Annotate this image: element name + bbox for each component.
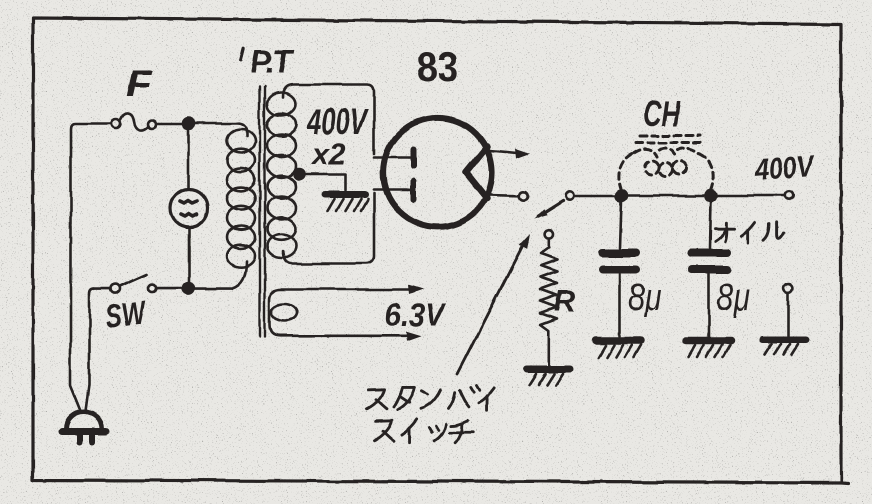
svg-text:8μ: 8μ — [717, 277, 750, 319]
svg-text:F: F — [126, 63, 153, 104]
svg-text:83: 83 — [417, 43, 458, 90]
svg-text:x2: x2 — [310, 138, 346, 171]
svg-text:SW: SW — [103, 293, 150, 335]
svg-text:400V: 400V — [306, 101, 369, 142]
svg-text:CH: CH — [643, 93, 681, 134]
svg-text:6.3V: 6.3V — [385, 297, 446, 333]
svg-text:400V: 400V — [753, 150, 816, 187]
svg-text:P.T: P.T — [250, 44, 294, 80]
svg-text:R: R — [554, 285, 576, 318]
svg-text:8μ: 8μ — [628, 277, 661, 319]
